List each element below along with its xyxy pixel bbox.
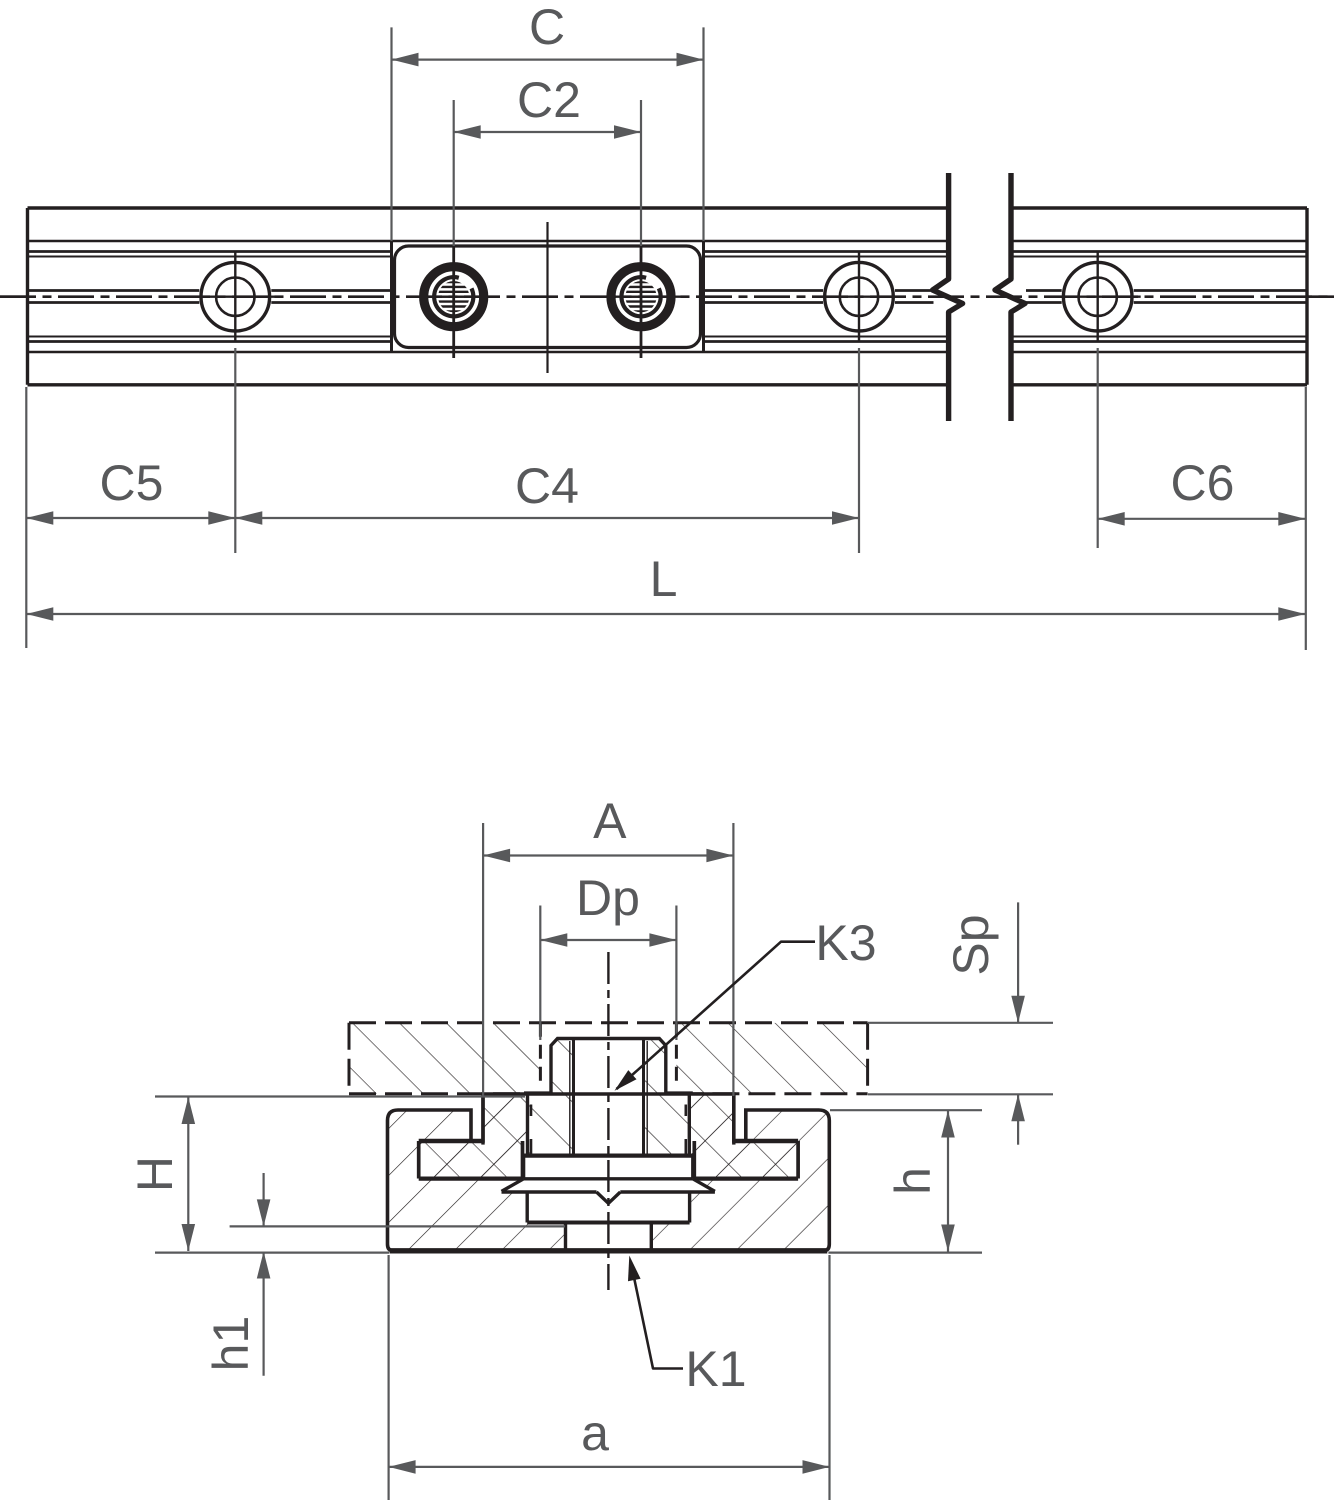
svg-text:C4: C4 [515,458,579,514]
svg-text:C: C [529,0,565,55]
svg-text:A: A [593,793,627,849]
svg-text:H: H [127,1156,183,1192]
svg-text:h1: h1 [203,1316,259,1372]
svg-text:h: h [885,1167,941,1195]
svg-text:C6: C6 [1171,455,1235,511]
svg-text:L: L [650,551,678,607]
svg-text:K1: K1 [685,1341,746,1397]
svg-text:K3: K3 [815,915,876,971]
svg-text:Dp: Dp [576,870,640,926]
svg-text:Sp: Sp [943,914,999,975]
svg-text:C2: C2 [517,72,581,128]
svg-text:C5: C5 [100,455,164,511]
svg-text:a: a [581,1405,609,1461]
